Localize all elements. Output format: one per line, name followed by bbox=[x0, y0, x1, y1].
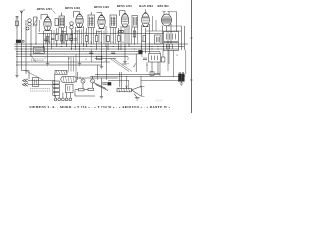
svg-text:5: 5 bbox=[85, 32, 86, 34]
capacitor C2 bbox=[44, 39, 48, 40]
wires to lamps bbox=[55, 95, 57, 98]
speaker leads bbox=[121, 72, 123, 88]
IF can T3 bbox=[110, 15, 117, 28]
svg-text:RENS 1204: RENS 1204 bbox=[94, 5, 109, 9]
speaker field coil bbox=[117, 88, 132, 91]
svg-text:236 98: 236 98 bbox=[155, 100, 163, 103]
svg-text:7: 7 bbox=[107, 32, 108, 34]
trimmer circles under V4 bbox=[118, 30, 120, 32]
tube V4 RENS1254 bbox=[121, 14, 128, 27]
svg-text:4: 4 bbox=[74, 33, 75, 35]
antenna A bbox=[20, 11, 23, 17]
capacitor C6 bbox=[89, 52, 93, 53]
wires V2 bbox=[75, 27, 77, 50]
wire earth rail bbox=[16, 16, 18, 74]
block capacitor C12 bbox=[108, 82, 111, 85]
svg-text:2: 2 bbox=[53, 34, 54, 36]
resistor R8 bbox=[95, 36, 98, 42]
resistor R7 bbox=[85, 36, 88, 42]
wires V3 bbox=[101, 30, 103, 65]
svg-text:6: 6 bbox=[96, 32, 97, 34]
coupling can V4-V5 bbox=[132, 16, 138, 28]
svg-text:12: 12 bbox=[70, 42, 72, 44]
capacitor C5 bbox=[69, 39, 73, 40]
wire bbox=[35, 25, 37, 44]
rectifier V6 RGN1064 bbox=[162, 14, 172, 26]
rails band bbox=[15, 43, 189, 45]
mech dashed links bbox=[31, 59, 44, 61]
voltage selector bbox=[33, 78, 39, 87]
svg-text:13: 13 bbox=[90, 42, 92, 44]
switch S1 bbox=[16, 40, 21, 43]
svg-text:RENS 1294: RENS 1294 bbox=[37, 7, 52, 11]
transformer primary coil bbox=[61, 76, 76, 82]
resistor R11 bbox=[133, 31, 136, 37]
terminal block bbox=[15, 21, 18, 26]
filter can B bbox=[164, 43, 179, 51]
svg-text:1: 1 bbox=[38, 30, 39, 32]
anode rail bbox=[38, 33, 164, 35]
svg-text:22: 22 bbox=[176, 55, 178, 57]
oscillator coil L3 bbox=[70, 22, 73, 25]
grid wire V1 bbox=[41, 15, 48, 20]
svg-text:10: 10 bbox=[141, 41, 143, 43]
svg-text:RENS 1254: RENS 1254 bbox=[117, 4, 132, 8]
label pointer bbox=[53, 11, 56, 14]
svg-text:17: 17 bbox=[44, 58, 46, 60]
svg-text:a: a bbox=[24, 9, 26, 12]
wire bundle V1-V2 zone bbox=[45, 34, 47, 45]
svg-text:8: 8 bbox=[117, 32, 118, 34]
IF can T1 bbox=[59, 16, 65, 28]
trimmer capacitor C1 bbox=[34, 17, 37, 25]
caption bbox=[0, 106, 200, 109]
hatch inside V6 bbox=[162, 18, 171, 22]
coil L2 bbox=[26, 27, 29, 30]
svg-text:11: 11 bbox=[49, 42, 51, 44]
svg-text:18: 18 bbox=[68, 58, 70, 60]
svg-text:20: 20 bbox=[105, 60, 107, 62]
block capacitor C10 bbox=[139, 50, 143, 53]
resistor R4 bbox=[70, 35, 73, 41]
diagonal cord bbox=[25, 71, 43, 80]
coil box L4 bbox=[55, 19, 58, 26]
secondary windings bbox=[53, 81, 60, 84]
output transformer bbox=[149, 54, 161, 63]
svg-text:9: 9 bbox=[131, 30, 132, 32]
wire bbox=[25, 20, 27, 74]
wires V4 bbox=[120, 26, 122, 50]
capacitor C8 bbox=[143, 58, 147, 59]
svg-text:14: 14 bbox=[100, 42, 102, 44]
tiny value text marks bbox=[122, 64, 129, 65]
wires V5 bbox=[140, 25, 142, 50]
speaker cone bbox=[132, 86, 142, 96]
resistor R10 bbox=[118, 36, 121, 42]
mains plug lower bbox=[23, 83, 29, 86]
resistor R9 bbox=[107, 36, 110, 42]
wires V6 bbox=[162, 26, 164, 45]
tube V3 RENS1204 bbox=[98, 15, 105, 28]
ground under speaker bbox=[134, 94, 137, 98]
extra vertical stubs band bbox=[61, 27, 138, 44]
resistor R5 bbox=[51, 38, 55, 39]
slant wires to speaker bbox=[94, 83, 107, 89]
terminal marks bbox=[16, 17, 19, 19]
wire bbox=[61, 28, 63, 45]
junction dots bbox=[21, 43, 169, 49]
svg-text:21: 21 bbox=[146, 65, 148, 67]
grounds bbox=[15, 74, 18, 78]
grid resistor box under V5 bbox=[155, 35, 162, 44]
wire bbox=[100, 78, 102, 95]
IF can T2 bbox=[88, 15, 95, 28]
tube V1 RENS1294 bbox=[44, 17, 51, 30]
capacitor C7 bbox=[111, 52, 115, 53]
wires under V1 bbox=[43, 31, 45, 52]
pilot lamps bbox=[54, 98, 57, 101]
wire antenna down bbox=[21, 16, 23, 71]
right mid wires bbox=[173, 50, 175, 77]
electrolytic block bbox=[179, 74, 182, 81]
power transformer hatched top bar bbox=[55, 71, 67, 75]
capacitor C11 marks bbox=[102, 83, 107, 84]
coil L1 bbox=[28, 19, 31, 22]
resistor R6 bbox=[65, 35, 68, 41]
filter can A bbox=[164, 32, 179, 42]
transformer frame bbox=[54, 74, 56, 97]
tube V2 RENS1204 bbox=[76, 14, 83, 27]
mains plug upper bbox=[23, 79, 29, 82]
svg-text:RES 964: RES 964 bbox=[157, 4, 169, 8]
resistor R13 R14 horizontal bbox=[79, 89, 85, 91]
pot with arrow bbox=[135, 54, 137, 72]
lower rails bbox=[16, 61, 110, 63]
wires right bbox=[181, 26, 183, 50]
border right bbox=[190, 0, 192, 113]
fuse circles bbox=[81, 79, 85, 83]
wire bbox=[30, 26, 32, 57]
svg-text:RENS 1204: RENS 1204 bbox=[65, 6, 80, 10]
tube V5 RES964 bbox=[142, 13, 150, 27]
staircase drops bbox=[159, 52, 161, 55]
heater wires bbox=[68, 57, 70, 72]
wires mains bbox=[28, 80, 55, 82]
svg-text:3: 3 bbox=[63, 32, 64, 34]
svg-text:19: 19 bbox=[85, 59, 87, 61]
svg-text:RGN 1064: RGN 1064 bbox=[139, 4, 153, 8]
resistor R1 bbox=[46, 37, 49, 43]
wire bbox=[152, 16, 154, 31]
wire stub bbox=[39, 20, 41, 32]
resistor R12 bbox=[143, 36, 146, 42]
svg-text:15: 15 bbox=[111, 42, 113, 44]
tiny value labels bbox=[38, 30, 178, 67]
label box bbox=[34, 47, 45, 53]
svg-text:16: 16 bbox=[122, 42, 124, 44]
padder capacitor C4 bbox=[56, 35, 59, 41]
